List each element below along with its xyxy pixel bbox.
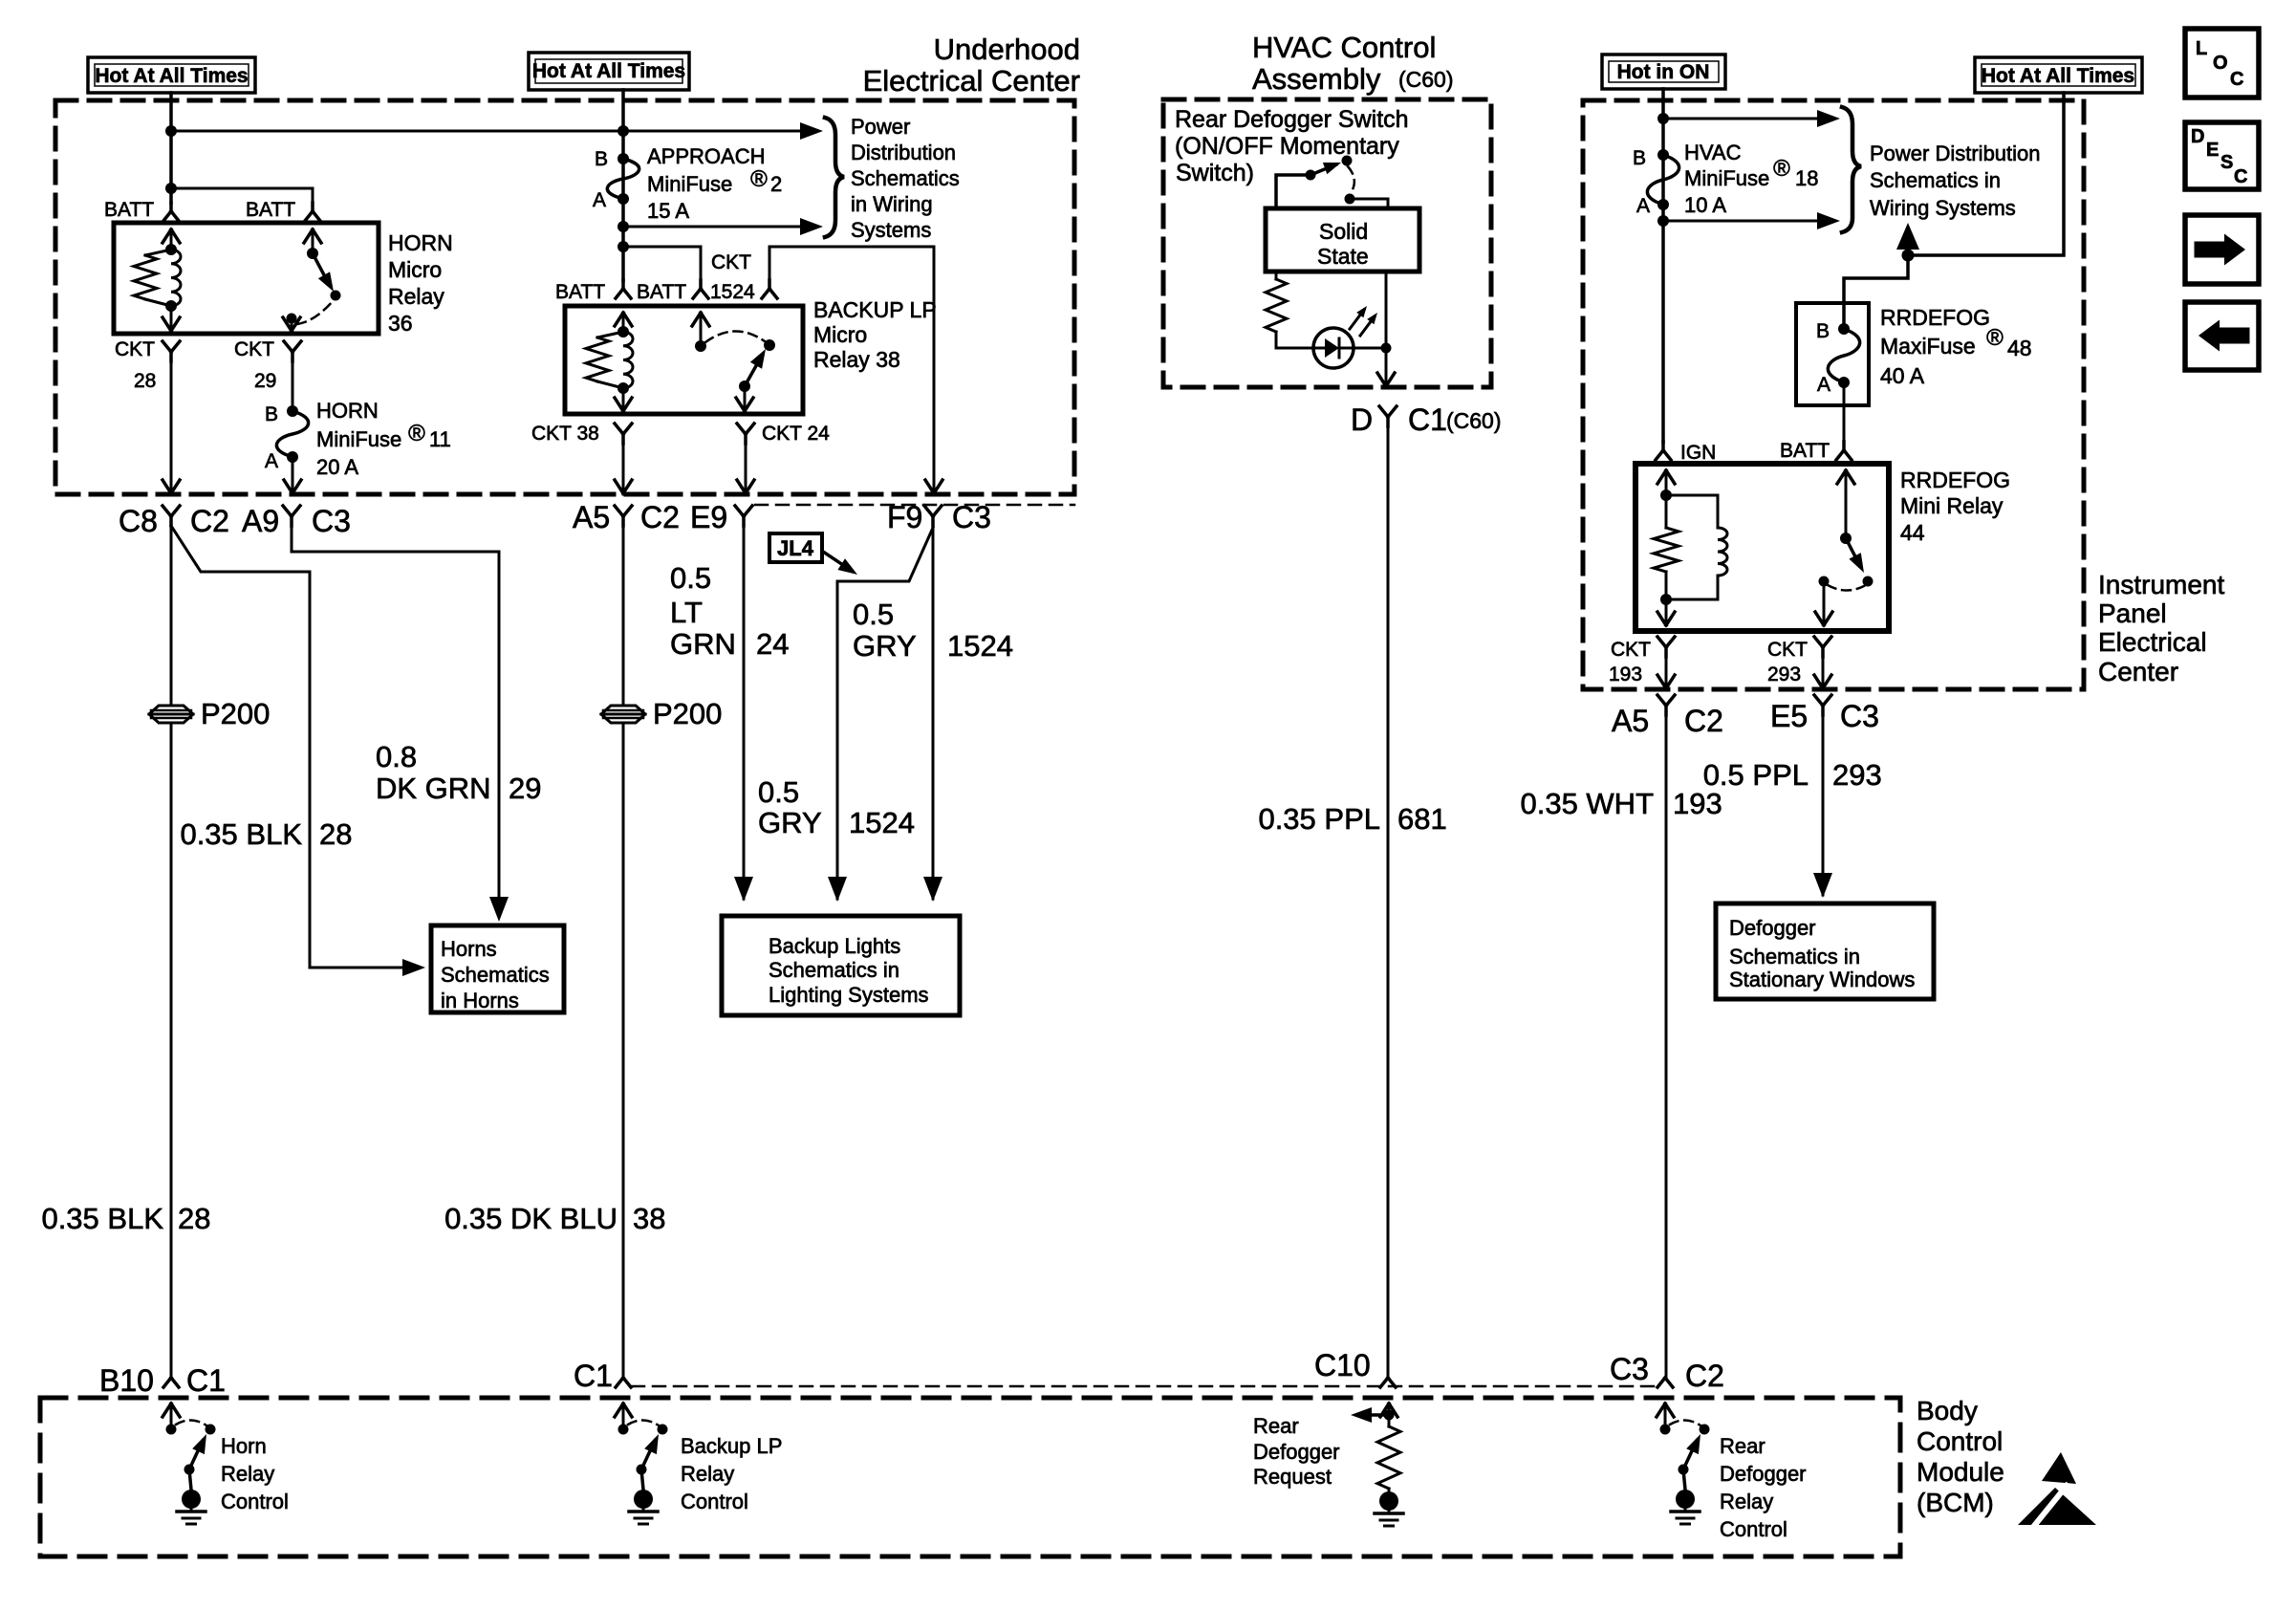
fuse F11 HORN MiniFuse 11 (20A) xyxy=(276,405,308,463)
svg-text:CKT 24: CKT 24 xyxy=(762,423,830,445)
brace for power distribution schematics (IPEC) xyxy=(1842,107,1861,232)
connector label C1 (backup) xyxy=(574,1359,613,1393)
svg-text:(BCM): (BCM) xyxy=(1917,1488,1994,1517)
wire branch to relay38 common pin xyxy=(623,247,701,280)
pin label BATT relay38 common xyxy=(637,281,686,303)
wire CKT24 down to UEC edge xyxy=(745,444,747,494)
wire MaxiFuse A down to BATT pin xyxy=(1843,382,1846,442)
svg-text:BATT: BATT xyxy=(246,199,295,221)
node junction (1740,124) xyxy=(1657,113,1669,124)
svg-text:293: 293 xyxy=(1767,664,1801,685)
wire label 0.35 PPL 681 xyxy=(1258,802,1446,836)
defogger switch wire to solid state xyxy=(1350,199,1388,208)
svg-text:Schematics: Schematics xyxy=(441,963,550,987)
svg-text:24: 24 xyxy=(756,627,789,661)
relay38 resistor (parallel) xyxy=(586,332,623,388)
svg-text:C1: C1 xyxy=(186,1363,226,1398)
wire arrow to IPEC brace top xyxy=(1663,110,1840,127)
svg-text:®: ® xyxy=(750,166,768,192)
svg-text:Assembly: Assembly xyxy=(1252,62,1381,96)
svg-text:APPROACH: APPROACH xyxy=(647,144,765,168)
svg-text:Hot At All Times: Hot At All Times xyxy=(95,65,248,87)
relay38 coil bottom node xyxy=(617,382,629,394)
relay38 switch common dot xyxy=(695,340,706,352)
connector label C10 xyxy=(1314,1348,1371,1382)
svg-text:C3: C3 xyxy=(312,504,351,538)
pin label CKT 24 xyxy=(762,423,830,445)
svg-text:0.35 DK BLU: 0.35 DK BLU xyxy=(444,1202,617,1235)
relay38 switch arm xyxy=(745,349,766,386)
svg-text:P200: P200 xyxy=(653,697,722,730)
solid state resistor lead xyxy=(1275,272,1278,279)
svg-text:28: 28 xyxy=(134,370,156,392)
svg-text:A: A xyxy=(265,450,278,472)
wire label 0.5 GRY 1524 (upper) xyxy=(853,598,1013,663)
svg-text:CKT: CKT xyxy=(115,338,155,360)
wire fuse11 A to UEC edge xyxy=(292,457,294,494)
svg-text:RRDEFOG: RRDEFOG xyxy=(1880,305,1990,330)
svg-text:A: A xyxy=(593,189,606,211)
wire F9 straight down xyxy=(932,528,935,899)
svg-text:Control: Control xyxy=(1720,1517,1787,1541)
svg-text:Backup Lights: Backup Lights xyxy=(769,934,900,958)
connector CKT1524 relay38 xyxy=(762,280,777,298)
svg-text:Schematics in: Schematics in xyxy=(769,958,899,982)
svg-text:Lighting Systems: Lighting Systems xyxy=(769,983,929,1007)
svg-text:293: 293 xyxy=(1832,758,1882,792)
svg-text:HORN: HORN xyxy=(316,399,379,423)
connector label C3 C2 (BCM) xyxy=(1610,1352,1724,1393)
svg-text:BATT: BATT xyxy=(637,281,686,303)
relay36 label HORN Micro Relay 36 xyxy=(388,230,453,336)
note text Power Distribution Schematics in Wiring Systems (UEC) xyxy=(851,115,960,242)
wire branch to BATT2 of horn relay xyxy=(171,188,313,203)
wire E9 down to backup lights box xyxy=(743,526,746,878)
svg-text:0.5: 0.5 xyxy=(670,561,711,595)
connector label B10 C1 xyxy=(99,1363,226,1398)
svg-text:Hot At All Times: Hot At All Times xyxy=(1982,65,2134,87)
connector A5 female xyxy=(615,506,632,526)
LED to output wire xyxy=(1354,347,1386,350)
fuse F18 HVAC MiniFuse 18 (10A) xyxy=(1647,149,1679,210)
wire C8 straight down (x=179) xyxy=(170,526,173,1378)
pin label BATT relay44 xyxy=(1780,440,1830,462)
connector label E5 C3 (IPEC) xyxy=(1770,699,1879,733)
svg-text:Module: Module xyxy=(1917,1457,2004,1487)
callout JL4 box xyxy=(769,533,822,562)
wire 0.35 PPL 681 down to BCM xyxy=(1387,426,1390,1378)
svg-text:48: 48 xyxy=(2007,336,2032,360)
svg-text:Wiring Systems: Wiring Systems xyxy=(1870,196,2016,220)
relay44 switch pivot dot xyxy=(1840,533,1852,544)
LED light arrows xyxy=(1350,306,1377,336)
svg-text:®: ® xyxy=(408,421,425,446)
svg-text:Relay 38: Relay 38 xyxy=(813,347,900,372)
solid state box xyxy=(1266,208,1419,272)
pin label BATT (horn relay pin 2) xyxy=(246,199,295,221)
pin label BATT relay38 coil xyxy=(555,281,605,303)
svg-text:A5: A5 xyxy=(1612,704,1649,738)
svg-text:B10: B10 xyxy=(99,1363,154,1398)
svg-text:18: 18 xyxy=(1795,166,1818,190)
arrow E9 into backup lights box xyxy=(734,877,753,902)
underhood electrical center dashed box xyxy=(55,100,1074,494)
wire CKT29 down to fuse 11 xyxy=(292,361,294,411)
HVAC output node dot xyxy=(1381,343,1392,354)
pin label IGN xyxy=(1680,442,1716,464)
wire label 0.8 DK GRN 29 xyxy=(376,740,541,805)
HVAC title HVAC Control Assembly (C60) xyxy=(1252,31,1454,96)
svg-text:HVAC: HVAC xyxy=(1684,141,1742,164)
connector label F9 C3 xyxy=(887,500,991,534)
svg-text:in Wiring: in Wiring xyxy=(851,192,933,216)
svg-text:GRY: GRY xyxy=(758,806,822,839)
instrument panel electrical center dashed box xyxy=(1583,100,2084,689)
relay36 switch arm xyxy=(313,253,334,292)
defogger switch wire corner xyxy=(1276,175,1310,208)
wire from Hot At All Times right down-left xyxy=(1914,93,2064,255)
svg-text:E: E xyxy=(2206,140,2219,161)
svg-text:CKT: CKT xyxy=(234,338,274,360)
svg-text:Relay: Relay xyxy=(1720,1490,1773,1513)
fuse F48 pin A label xyxy=(1817,374,1830,396)
BCM title Body Control Module (BCM) xyxy=(1917,1396,2004,1517)
svg-text:C1: C1 xyxy=(1408,402,1447,437)
relay44 switch common pin arrow xyxy=(1837,470,1854,538)
svg-text:C2: C2 xyxy=(1684,704,1723,738)
connector D female (C60) xyxy=(1379,406,1397,426)
svg-text:S: S xyxy=(2220,152,2233,173)
relay K38 BACKUP LP Micro Relay box xyxy=(565,306,803,414)
BCM label Rear Defogger Relay Control xyxy=(1720,1434,1807,1541)
svg-text:BATT: BATT xyxy=(555,281,605,303)
connector BATT relay44 xyxy=(1836,442,1852,460)
relay36 dashed travel arc xyxy=(297,301,333,324)
connector E9 female xyxy=(735,506,752,526)
connector CKT24 below relay38 xyxy=(737,424,754,444)
svg-text:Defogger: Defogger xyxy=(1729,916,1816,940)
splice P200 (left) xyxy=(149,706,193,723)
svg-text:Schematics in: Schematics in xyxy=(1729,945,1860,968)
power label box Hot At All Times (left) xyxy=(88,57,255,93)
svg-text:CKT: CKT xyxy=(1767,639,1808,661)
pin label CKT 193 xyxy=(1609,639,1651,685)
pin label CKT 293 xyxy=(1767,639,1808,685)
wire from Hot At All Times down to BATT (x=179) xyxy=(169,93,173,203)
arrow at UEC edge x=179 xyxy=(162,480,180,493)
relay44 coil winding loop xyxy=(1666,495,1727,599)
svg-text:Power Distribution: Power Distribution xyxy=(1870,141,2041,165)
connector A9 female xyxy=(283,506,300,526)
fuse F2 pin B label xyxy=(595,148,608,170)
svg-text:Hot in ON: Hot in ON xyxy=(1617,61,1710,83)
box Defogger Schematics in Stationary Windows xyxy=(1716,903,1934,999)
connector C8 female xyxy=(162,506,180,526)
BCM horn relay control switch xyxy=(162,1403,216,1524)
relay44 switch output contact dot xyxy=(1819,577,1830,587)
connector E5 female (IPEC) xyxy=(1814,695,1831,715)
svg-text:GRY: GRY xyxy=(853,629,917,663)
BCM rear defogger request resistor xyxy=(1377,1421,1400,1491)
svg-text:A9: A9 xyxy=(242,504,279,538)
relay36 coil top node xyxy=(165,244,177,255)
relay38 coil bottom arrow down xyxy=(615,388,632,411)
connector label C8 C2 xyxy=(119,504,229,538)
LED indicator xyxy=(1313,328,1354,368)
svg-text:Horn: Horn xyxy=(221,1434,267,1458)
relay38 dashed travel arc xyxy=(705,331,765,342)
relay38 coil pin arrow up xyxy=(615,313,632,332)
svg-text:E5: E5 xyxy=(1770,699,1808,733)
fuse F48 label RRDEFOG MaxiFuse 48 40 A xyxy=(1880,305,2032,388)
pin label CKT 1524 xyxy=(710,251,755,303)
svg-text:28: 28 xyxy=(178,1202,210,1235)
wire horizontal feed to power distribution arrow y=137 xyxy=(171,125,814,137)
connector A5 C2 female (IPEC) xyxy=(1657,695,1675,715)
svg-text:HORN: HORN xyxy=(388,230,453,255)
relay36 resistor (parallel) xyxy=(134,250,171,306)
resistor in HVAC switch xyxy=(1266,279,1287,332)
resistor to LED wire xyxy=(1276,332,1313,348)
pin label CKT 38 xyxy=(531,423,599,445)
node junction (1996,267) xyxy=(1902,250,1915,262)
box Backup Lights Schematics in Lighting Systems xyxy=(722,916,960,1015)
wire label 0.35 BLK 28 (lower) xyxy=(41,1202,210,1235)
svg-text:BACKUP LP: BACKUP LP xyxy=(813,297,937,322)
wire solid state output down xyxy=(1385,272,1388,375)
wire label 0.5 PPL 293 xyxy=(1703,758,1882,792)
svg-text:20 A: 20 A xyxy=(316,455,358,479)
svg-text:E9: E9 xyxy=(690,500,727,534)
svg-text:F9: F9 xyxy=(887,500,922,534)
svg-text:BATT: BATT xyxy=(1780,440,1830,462)
svg-text:Defogger: Defogger xyxy=(1720,1462,1807,1486)
power label box Hot At All Times (right) xyxy=(1975,57,2142,93)
pin label CKT 29 xyxy=(234,338,276,392)
fuse F11 label HORN MiniFuse 11 20 A xyxy=(316,399,451,479)
wire label 0.35 WHT 193 xyxy=(1520,787,1722,820)
svg-text:Micro: Micro xyxy=(388,257,442,282)
UEC title Underhood Electrical Center xyxy=(863,33,1080,98)
svg-text:MiniFuse: MiniFuse xyxy=(647,172,732,196)
svg-text:B: B xyxy=(265,403,278,425)
svg-text:Rear: Rear xyxy=(1253,1414,1299,1438)
svg-text:Panel: Panel xyxy=(2098,598,2167,628)
svg-text:15 A: 15 A xyxy=(647,199,689,223)
relay38 output arrow down xyxy=(736,386,753,411)
node junction at (179,197) xyxy=(165,183,177,194)
svg-text:C3: C3 xyxy=(1610,1352,1649,1386)
relay44 coil pin arrow up xyxy=(1657,470,1675,495)
svg-text:A: A xyxy=(1817,374,1830,396)
svg-text:Relay: Relay xyxy=(221,1462,274,1486)
wire Hot in ON down (x=1740) xyxy=(1661,89,1665,442)
HVAC label Rear Defogger Switch (ON/OFF Momentary Switch) xyxy=(1175,106,1409,186)
wire CKT293 to IPEC edge xyxy=(1814,657,1831,689)
body control module dashed box xyxy=(40,1398,1900,1556)
relay36 switch output contact dot xyxy=(287,314,297,324)
relay36 coil pin arrow up xyxy=(162,229,180,250)
fuse F48 RRDEFOG MaxiFuse 48 (40A) xyxy=(1828,323,1859,388)
svg-text:1524: 1524 xyxy=(947,629,1013,663)
svg-text:2: 2 xyxy=(770,172,782,196)
svg-text:0.35 BLK: 0.35 BLK xyxy=(41,1202,163,1235)
wire A9 to horns box xyxy=(292,528,499,899)
connector CKT28 below relay36 xyxy=(162,341,180,361)
IPEC title Instrument Panel Electrical Center xyxy=(2098,570,2224,686)
svg-text:C2: C2 xyxy=(640,500,680,534)
splice P200 (mid) xyxy=(601,706,645,723)
svg-text:State: State xyxy=(1317,244,1369,269)
fuse F11 pin A label xyxy=(265,450,278,472)
relay K44 RRDEFOG Mini Relay box xyxy=(1635,464,1889,631)
HVAC control assembly dashed box xyxy=(1163,99,1491,387)
svg-text:L: L xyxy=(2196,38,2207,59)
relay44 dashed travel arc xyxy=(1828,585,1864,591)
defogger switch lower contact dot xyxy=(1345,194,1355,205)
label P200 (left) xyxy=(201,697,270,730)
wire CKT28 down to UEC edge xyxy=(170,361,173,494)
svg-text:LT: LT xyxy=(670,596,703,629)
svg-text:(C60): (C60) xyxy=(1398,67,1454,92)
connector C1 male xyxy=(616,1378,631,1387)
arrow at UEC edge x=977 xyxy=(925,480,942,493)
wire A5 straight down (x=652) xyxy=(622,526,625,1378)
wire label 0.5 GRY 1524 (lower) xyxy=(758,775,915,839)
svg-text:B: B xyxy=(595,148,608,170)
svg-text:Electrical Center: Electrical Center xyxy=(863,64,1080,98)
relay44 switch arm xyxy=(1846,538,1864,573)
node junction (1740,231) xyxy=(1657,215,1669,227)
svg-text:10 A: 10 A xyxy=(1684,193,1726,217)
relay36 output arrow down xyxy=(283,317,300,331)
svg-text:Control: Control xyxy=(221,1490,289,1513)
wire arrow to IPEC brace bottom xyxy=(1663,212,1840,229)
relay K36 HORN Micro Relay box xyxy=(114,223,379,334)
svg-text:C1: C1 xyxy=(574,1359,613,1393)
svg-text:O: O xyxy=(2213,53,2228,74)
svg-text:C: C xyxy=(2230,69,2243,90)
connector BATT relay38 coil xyxy=(616,280,631,298)
svg-text:Electrical: Electrical xyxy=(2098,627,2207,657)
arrow into Horns box xyxy=(402,959,425,976)
svg-text:B: B xyxy=(1816,320,1830,342)
svg-text:Center: Center xyxy=(2098,657,2178,686)
connector label E9 xyxy=(690,500,727,534)
connector label D C1 (C60) xyxy=(1351,402,1502,437)
arrow down into Horns box xyxy=(489,897,509,922)
fuse F2 pin A label xyxy=(593,189,606,211)
svg-text:Solid: Solid xyxy=(1319,219,1368,244)
svg-text:0.35 PPL: 0.35 PPL xyxy=(1258,802,1380,836)
connector label A5 C2 (IPEC) xyxy=(1612,704,1723,738)
svg-text:C3: C3 xyxy=(1840,699,1879,733)
connector C10 male xyxy=(1380,1378,1396,1387)
note text Power Distribution Schematics in Wiring Systems (IPEC) xyxy=(1870,141,2041,220)
relay38 switch NO contact dot xyxy=(764,339,775,351)
wire label 0.35 BLK 28 (upper) xyxy=(180,817,352,851)
connector label A5 C2 (UEC) xyxy=(573,500,680,534)
svg-text:Schematics in: Schematics in xyxy=(1870,168,2001,192)
wire CKT1524 riser to F9 xyxy=(769,247,934,494)
wire CKT193 to IPEC edge xyxy=(1657,657,1675,689)
relay36 coil bottom node xyxy=(165,300,177,312)
BCM rear defogger relay control switch xyxy=(1657,1403,1710,1524)
relay36 switch pivot dot xyxy=(307,248,318,259)
wire 0.35 BLK 28 diagonal from C8 xyxy=(171,526,418,968)
BCM rear defogger request input xyxy=(1351,1403,1397,1423)
BCM label Backup LP Relay Control xyxy=(681,1434,782,1513)
svg-text:MaxiFuse: MaxiFuse xyxy=(1880,334,1976,359)
svg-text:Rear: Rear xyxy=(1720,1434,1765,1458)
svg-text:Stationary Windows: Stationary Windows xyxy=(1729,968,1915,991)
svg-text:A: A xyxy=(1636,195,1650,217)
svg-text:29: 29 xyxy=(254,370,276,392)
svg-text:HVAC Control: HVAC Control xyxy=(1252,31,1436,64)
svg-text:Micro: Micro xyxy=(813,322,867,347)
svg-text:®: ® xyxy=(1986,325,2004,351)
relay38 coil winding xyxy=(623,332,633,388)
fuse F18 pin A label xyxy=(1636,195,1650,217)
defogger switch arm xyxy=(1310,163,1341,175)
relay38 switch common pin arrow xyxy=(692,313,709,346)
relay38 switch pivot dot xyxy=(739,381,750,392)
svg-text:®: ® xyxy=(1773,156,1790,182)
svg-text:CKT: CKT xyxy=(1611,639,1651,661)
BCM backup lp relay control switch xyxy=(615,1403,668,1524)
svg-text:Switch): Switch) xyxy=(1176,160,1254,186)
callout JL4 arrow xyxy=(823,552,857,575)
svg-text:0.8: 0.8 xyxy=(376,740,417,773)
fuse F48 RRDEFOG MaxiFuse 48 box xyxy=(1796,303,1869,405)
relay36 switch NO contact dot xyxy=(331,291,341,301)
node junction at (179,137) xyxy=(165,125,177,137)
arrow at UEC edge x=306 xyxy=(284,480,301,493)
wire arrow to power-dist brace (bottom) xyxy=(623,218,823,235)
svg-text:Backup LP: Backup LP xyxy=(681,1434,782,1458)
brace for power distribution schematics (UEC) xyxy=(825,118,844,237)
relay36 coil winding xyxy=(171,250,181,306)
wire CKT38 down to UEC edge xyxy=(622,444,625,494)
svg-text:C10: C10 xyxy=(1314,1348,1371,1382)
thin dashed connector line C1 (BCM) xyxy=(632,1385,1657,1388)
svg-text:D: D xyxy=(2191,126,2204,147)
connector B10 male xyxy=(163,1378,179,1387)
connector CKT293 below relay44 xyxy=(1814,637,1831,657)
relay44 label RRDEFOG Mini Relay 44 xyxy=(1900,468,2010,545)
svg-text:Control: Control xyxy=(1917,1426,2003,1456)
arrow into defogger box xyxy=(1813,873,1832,898)
wire down-left to MaxiFuse xyxy=(1844,255,1908,329)
svg-text:Instrument: Instrument xyxy=(2098,570,2224,599)
svg-text:D: D xyxy=(1351,402,1373,437)
wire label 0.5 LT GRN 24 xyxy=(670,561,789,661)
svg-text:0.5: 0.5 xyxy=(758,775,799,809)
relay44 switch NO contact dot xyxy=(1863,577,1874,587)
svg-text:36: 36 xyxy=(388,311,413,336)
BCM label Horn Relay Control xyxy=(221,1434,289,1513)
svg-text:Distribution: Distribution xyxy=(851,141,956,164)
svg-text:0.35 WHT: 0.35 WHT xyxy=(1520,787,1654,820)
svg-text:1524: 1524 xyxy=(849,806,915,839)
svg-text:38: 38 xyxy=(633,1202,665,1235)
legend box forward arrow xyxy=(2185,215,2259,284)
arrow F9 wire into backup lights box xyxy=(923,877,942,902)
legend box back arrow xyxy=(2185,302,2259,370)
power label box Hot At All Times (mid) xyxy=(529,53,689,90)
defogger switch dashed travel arc xyxy=(1348,166,1354,193)
connector F9 female xyxy=(924,506,942,526)
